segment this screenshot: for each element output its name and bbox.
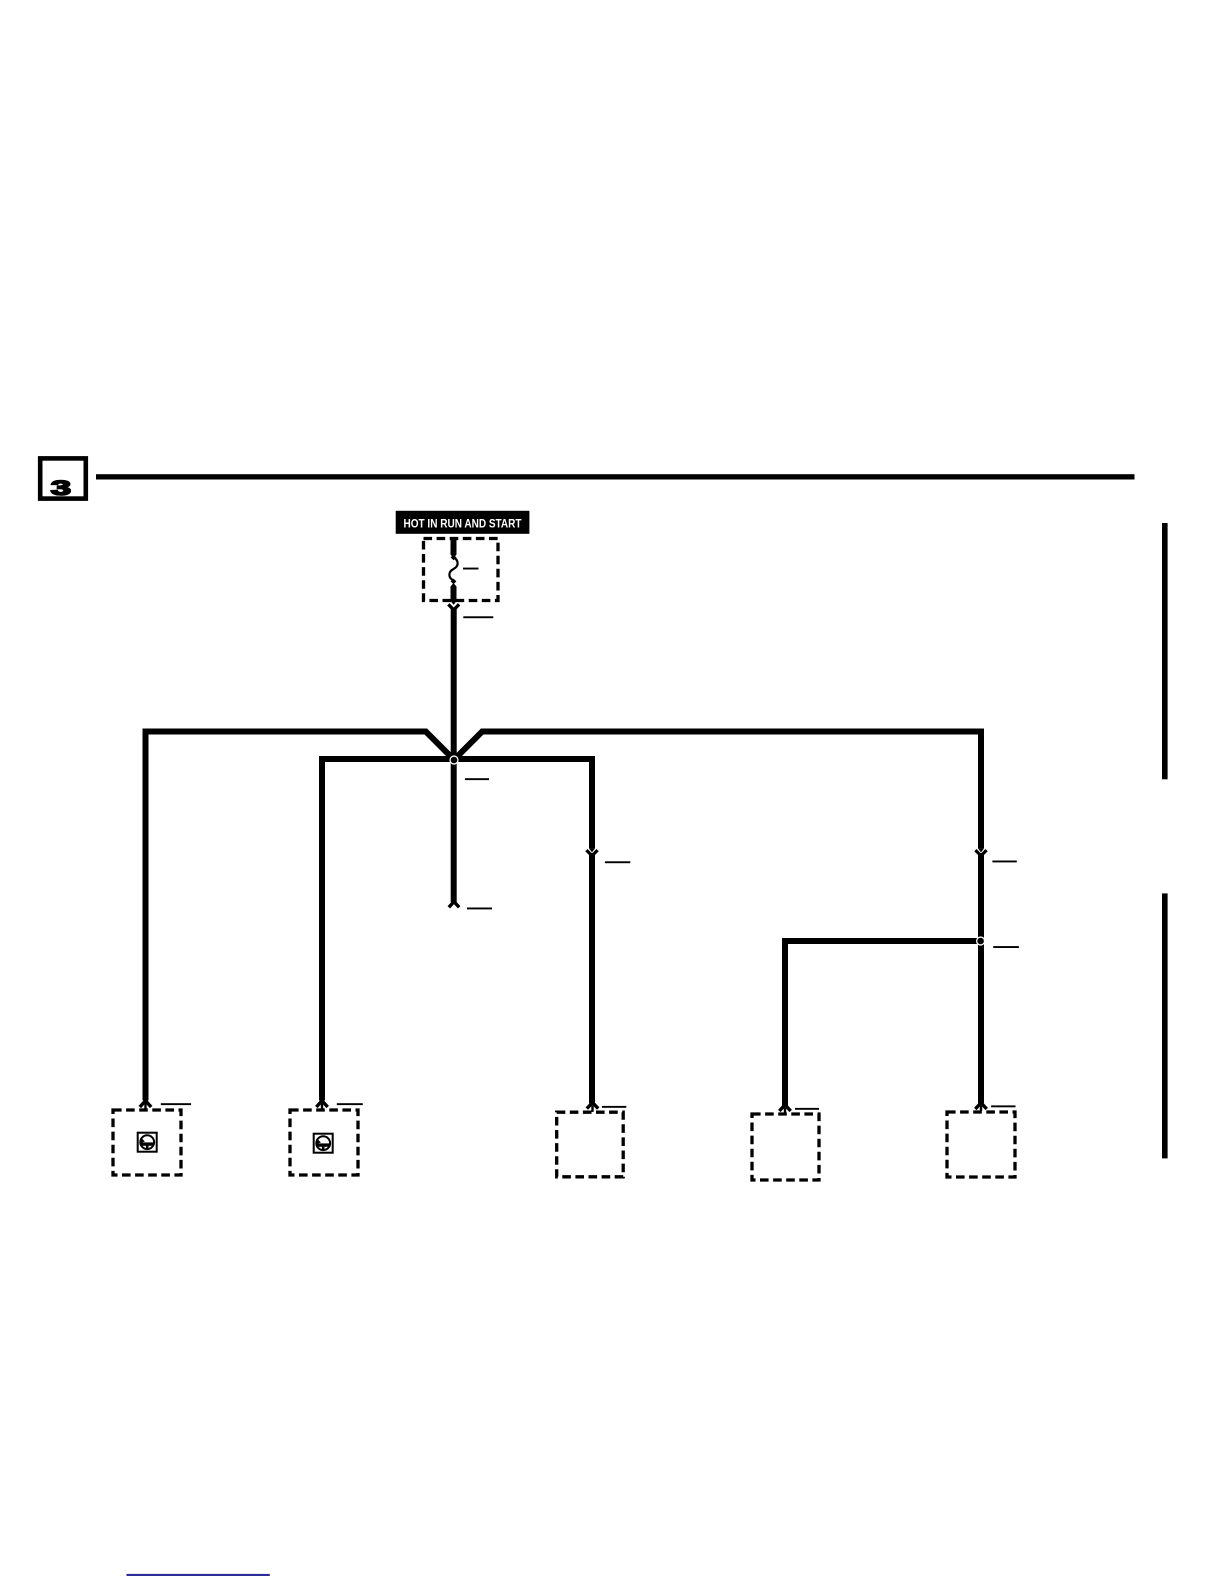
arrow out of fuse bbox=[448, 601, 459, 610]
C3 pin label line bbox=[602, 1106, 626, 1108]
connector arrow into C2 bbox=[316, 1101, 327, 1109]
wire branch left outer: down to connector box C1 bbox=[146, 732, 455, 1101]
fuse F1 dashed box bbox=[424, 539, 499, 601]
C2 pin label line bbox=[337, 1103, 363, 1105]
wire branch right outer: down to component box C5 bbox=[454, 732, 981, 1104]
connector arrow into C3 bbox=[587, 1103, 598, 1112]
wire end label line bbox=[467, 908, 492, 910]
component box C2 bbox=[290, 1110, 358, 1175]
section bar upper right bbox=[1162, 523, 1168, 779]
node S1 junction bbox=[449, 755, 458, 764]
label line at C3 arrow bbox=[605, 861, 630, 863]
svg-text:HOT IN RUN AND START: HOT IN RUN AND START bbox=[404, 517, 522, 531]
svg-text:3: 3 bbox=[51, 476, 71, 500]
main feed wire down from fuse to wire end bbox=[451, 608, 457, 903]
connector arrow into C5 bbox=[975, 1103, 986, 1111]
C4 pin label line bbox=[795, 1108, 819, 1110]
node S2 label line bbox=[993, 946, 1019, 948]
section bar lower right bbox=[1162, 893, 1168, 1158]
inline arrow on C3 wire bbox=[586, 848, 597, 855]
connector arrow into C1 bbox=[140, 1101, 151, 1109]
label line at C5 arrow bbox=[992, 861, 1016, 863]
C2 icon bbox=[314, 1134, 333, 1153]
component box C3 bbox=[557, 1112, 624, 1177]
inline arrow on C5 wire bbox=[975, 848, 986, 855]
wire branch to component box C4 bbox=[785, 941, 981, 1106]
C1 icon bbox=[138, 1133, 157, 1152]
wire end arrow (mid feed) bbox=[449, 902, 459, 908]
wire label line below fuse bbox=[463, 616, 493, 618]
page number box 3 bbox=[40, 458, 86, 500]
label HOT IN RUN AND START bbox=[396, 511, 530, 534]
C1 pin label line bbox=[161, 1103, 191, 1105]
component box C5 bbox=[947, 1112, 1015, 1177]
component box C4 bbox=[752, 1114, 819, 1180]
node S1 label line bbox=[465, 778, 489, 780]
wire branch inner: C2 to C3 through node bbox=[322, 759, 592, 1103]
C5 pin label line bbox=[991, 1105, 1015, 1107]
footer link line bbox=[127, 1574, 270, 1576]
fuse value label line bbox=[463, 568, 479, 570]
fuse F1 element bbox=[449, 537, 457, 601]
connector arrow into C4 bbox=[779, 1105, 790, 1113]
component box C1 bbox=[113, 1110, 181, 1175]
node S2 junction bbox=[976, 936, 985, 945]
top rule bbox=[96, 474, 1135, 479]
